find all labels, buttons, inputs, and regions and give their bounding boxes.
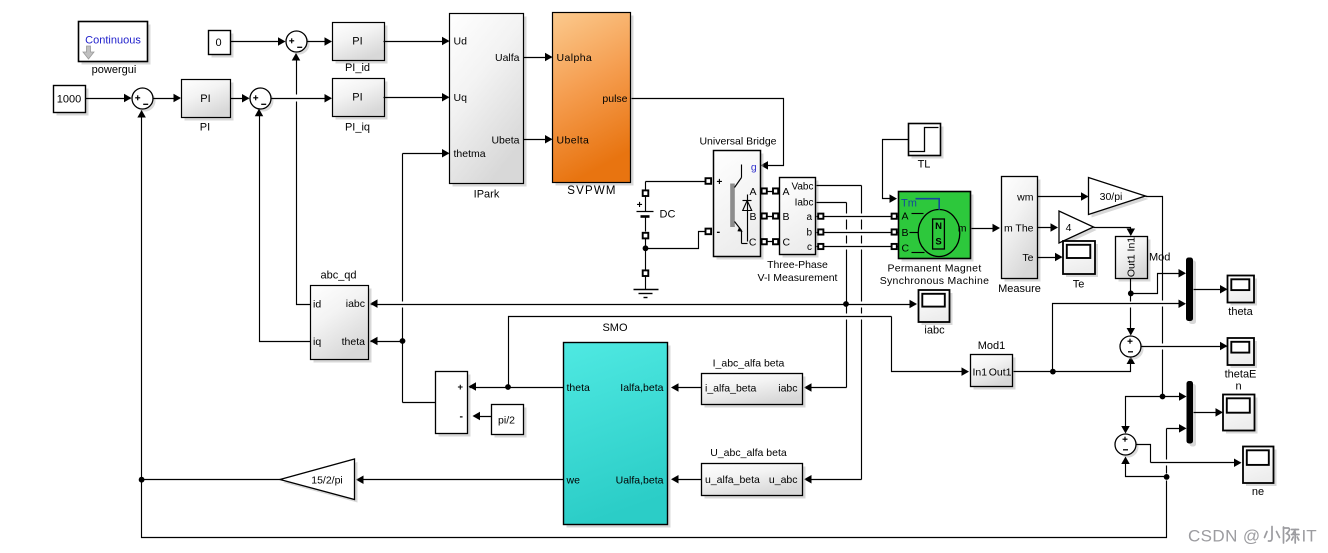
node Mod1 output junction: [1050, 369, 1056, 375]
svg-text:Measure: Measure: [998, 283, 1041, 295]
wire theta up to Mod1 route: [509, 317, 892, 388]
constant 0: [209, 31, 234, 58]
wire Mod1 junction to sum thetaE minus: [1053, 357, 1136, 372]
wire TL to machine Tm: [883, 140, 909, 203]
universal bridge block: [699, 136, 776, 260]
wire measurement c to machine: [817, 246, 899, 248]
wire SMO theta output: [509, 387, 564, 389]
svg-text:thetma: thetma: [454, 148, 486, 160]
svg-text:C: C: [902, 243, 910, 255]
three-phase V-I measurement block: [758, 178, 838, 285]
svg-text:Out1 In1: Out1 In1: [1125, 237, 1137, 277]
wire SVPWM pulse to bridge g: [632, 99, 784, 170]
node Mod output junction: [1128, 291, 1134, 297]
svg-text:PI: PI: [352, 36, 362, 48]
port square measurement B left: [773, 213, 778, 218]
wire 1000 to sum1: [86, 94, 132, 103]
gain 4: [1059, 211, 1097, 246]
PI_iq controller block: [333, 79, 388, 134]
SMO block: [564, 322, 671, 528]
svg-text:B: B: [902, 227, 909, 239]
svg-text:u_abc: u_abc: [769, 474, 798, 486]
svg-text:Ualpha: Ualpha: [557, 52, 593, 64]
svg-text:Mod: Mod: [1149, 252, 1170, 264]
sum junction iq (sum2): [250, 88, 274, 112]
port square measurement C left: [773, 239, 778, 244]
svg-text:Mod1: Mod1: [978, 340, 1006, 352]
svg-text:N: N: [935, 221, 942, 232]
svg-text:n: n: [1235, 381, 1241, 393]
svg-text:The: The: [1015, 223, 1033, 235]
svg-text:SVPWM: SVPWM: [567, 185, 616, 197]
wire DC minus to bridge minus: [646, 232, 706, 249]
wire sum thetaE to thetaE scope: [1142, 342, 1228, 351]
svg-text:+: +: [457, 382, 463, 393]
wire sum2 to PI_iq: [271, 94, 333, 103]
port square bridge minus: [706, 229, 712, 235]
port square measurement b right: [818, 229, 823, 234]
wire sum ne to ne scope: [1137, 445, 1242, 468]
wire DC to ground: [645, 249, 647, 290]
svg-text:C: C: [749, 237, 757, 249]
svg-text:we: we: [566, 475, 581, 487]
add block theta plus pi/2: [436, 372, 471, 437]
svg-text:PI_id: PI_id: [345, 62, 370, 74]
svg-text:Ualfa,beta: Ualfa,beta: [616, 475, 664, 487]
port square measurement A left: [773, 188, 778, 193]
port square ground: [643, 270, 649, 276]
svg-text:DC: DC: [660, 209, 676, 221]
wire sum3 to PI_id: [307, 37, 333, 46]
svg-text:Ualfa: Ualfa: [495, 52, 520, 64]
svg-text:theta: theta: [567, 382, 591, 394]
svg-text:-: -: [460, 411, 464, 423]
svg-text:Tm: Tm: [901, 198, 917, 210]
svg-text:SMO: SMO: [602, 322, 628, 334]
theta scope: [1228, 276, 1258, 319]
svg-text:PI: PI: [200, 122, 210, 134]
svg-text:thetaE: thetaE: [1225, 369, 1257, 381]
svg-text:0: 0: [215, 37, 221, 49]
port square machine c: [892, 244, 897, 249]
PI_id controller block: [333, 23, 388, 75]
node speed feedback junction: [139, 477, 145, 483]
port square DC plus: [643, 190, 649, 196]
svg-text:Te: Te: [1073, 279, 1085, 291]
port square machine a: [892, 214, 897, 219]
svg-text:u_alfa_beta: u_alfa_beta: [705, 474, 760, 486]
wire PI_iq to IPark Uq: [384, 93, 450, 102]
svg-text:iabc: iabc: [924, 325, 945, 337]
ground symbol: [634, 290, 659, 298]
svg-text:B: B: [749, 211, 756, 223]
svg-text:iabc: iabc: [346, 298, 365, 310]
wire measurement b to machine: [817, 232, 899, 234]
svg-text:Ud: Ud: [454, 36, 468, 48]
iabc scope: [919, 290, 953, 337]
svg-text:theta: theta: [342, 336, 366, 348]
wire PI to sum2: [231, 94, 250, 103]
wire Mod junction to sum thetaE plus: [1127, 294, 1136, 336]
svg-text:A: A: [749, 186, 756, 198]
mux n signals: [1187, 381, 1197, 447]
port square machine b: [892, 229, 897, 234]
n scope: [1223, 381, 1258, 434]
svg-text:+: +: [637, 200, 643, 211]
svg-text:abc_qd: abc_qd: [320, 270, 356, 282]
SVPWM block: [553, 13, 634, 198]
port square DC minus: [643, 233, 649, 239]
wire id feedback to sum3: [292, 53, 311, 305]
svg-text:Vabc: Vabc: [791, 181, 813, 192]
svg-text:Ubelta: Ubelta: [557, 134, 590, 146]
svg-text:C: C: [783, 237, 791, 249]
wire IPark Ualfa to SVPWM Ualpha: [524, 53, 553, 62]
DC voltage source: [637, 200, 676, 221]
I_abc_alfa beta converter block: [702, 358, 806, 408]
svg-text:Three-Phase: Three-Phase: [767, 259, 828, 271]
powergui block: [79, 22, 151, 77]
svg-text:pulse: pulse: [602, 93, 627, 105]
svg-text:id: id: [313, 299, 321, 311]
wire theta vertical trunk: [402, 154, 404, 403]
wire Mod junction to theta mux input1: [1131, 269, 1187, 293]
wire measurement a to machine: [817, 216, 899, 218]
wire pi/2 to add block: [473, 412, 492, 421]
wire mux to theta scope: [1194, 285, 1228, 294]
pi/2 constant: [492, 405, 527, 438]
wire bridge C to measurement C: [761, 241, 781, 243]
wire Iabc down: [817, 203, 847, 305]
port square measurement a right: [818, 214, 823, 219]
svg-text:B: B: [783, 211, 790, 223]
svg-text:CSDN @: CSDN @: [1188, 527, 1261, 546]
svg-text:4: 4: [1066, 222, 1072, 234]
wire iq feedback to sum2: [255, 109, 311, 342]
node DC minus junction: [643, 245, 649, 251]
svg-text:1000: 1000: [57, 93, 81, 105]
svg-text:PI: PI: [352, 92, 362, 104]
wire Mod1 output: [1014, 371, 1053, 373]
sum junction thetaE: [1120, 336, 1144, 360]
svg-text:m: m: [1004, 223, 1013, 235]
svg-text:U_abc_alfa beta: U_abc_alfa beta: [710, 447, 787, 459]
wire theta to add block plus: [469, 382, 509, 391]
svg-text:Ialfa,beta: Ialfa,beta: [620, 382, 663, 394]
wire estimated speed to sum ne minus: [1121, 457, 1166, 477]
thetaE scope: [1225, 338, 1257, 381]
svg-text:Permanent Magnet: Permanent Magnet: [887, 263, 981, 275]
wire theta to Mod1: [892, 317, 970, 376]
wire Vabc to u_abc: [804, 186, 862, 484]
wire DC minus terminal: [645, 217, 647, 249]
wire gain 4 to Mod subsystem: [1094, 228, 1136, 237]
wire measure wm to gain 30/pi: [1038, 192, 1089, 201]
TL step source block: [909, 124, 944, 171]
svg-text:-: -: [717, 226, 721, 238]
svg-text:I_abc_alfa beta: I_abc_alfa beta: [713, 358, 785, 370]
svg-text:In1: In1: [973, 367, 988, 379]
U_abc_alfa beta converter block: [702, 447, 806, 499]
svg-text:Universal Bridge: Universal Bridge: [699, 136, 776, 148]
wire 0 to sum3: [231, 37, 286, 46]
CSDN watermark: [1188, 527, 1317, 546]
sum junction speed (sum1): [132, 88, 156, 112]
ne scope: [1243, 447, 1277, 499]
svg-text:g: g: [751, 162, 757, 174]
svg-text:S: S: [935, 237, 941, 248]
wire measure The to gain 4: [1038, 223, 1059, 232]
svg-text:PI: PI: [200, 93, 210, 105]
Mod subsystem block Out1 In1: [1116, 237, 1171, 282]
wire bridge B to measurement B: [761, 216, 781, 218]
Te scope: [1063, 241, 1098, 291]
svg-text:wm: wm: [1016, 192, 1034, 204]
node estimated speed junction: [1164, 474, 1170, 480]
wire gain 15/2/pi output: [142, 479, 281, 481]
svg-text:IPark: IPark: [474, 189, 500, 201]
mux theta signals: [1186, 258, 1196, 325]
svg-text:Continuous: Continuous: [85, 35, 141, 47]
gain 30/pi: [1089, 178, 1149, 218]
wire SMO we to gain 15/2/pi: [356, 475, 564, 484]
svg-text:Synchronous Machine: Synchronous Machine: [880, 275, 990, 287]
wire measure Te to Te scope: [1038, 253, 1063, 262]
svg-text:iq: iq: [313, 336, 321, 348]
wire theta to abc_qd theta: [370, 337, 403, 346]
measure bus selector block: [998, 177, 1041, 296]
svg-text:pi/2: pi/2: [498, 415, 515, 427]
svg-text:Ubeta: Ubeta: [491, 134, 519, 146]
svg-text:+: +: [717, 177, 723, 188]
wire speed feedback bottom loop: [142, 424, 1187, 537]
wire Mod1 junction up to theta mux input2: [1053, 300, 1187, 372]
wire machine m to measure: [972, 224, 1001, 233]
wire bridge A to measurement A: [761, 191, 781, 193]
wire add block output to theta trunk: [403, 402, 436, 404]
Mod1 subsystem block In1 Out1: [971, 340, 1016, 390]
svg-text:Iabc: Iabc: [795, 198, 814, 209]
svg-text:iabc: iabc: [778, 383, 797, 395]
wire IPark Ubeta to SVPWM Ubelta: [524, 135, 553, 144]
node Iabc junction: [843, 301, 849, 307]
wire gain 30/pi down to speed node: [1146, 197, 1163, 397]
wire PI_id to IPark Ud: [384, 37, 450, 46]
port square bridge B: [762, 213, 767, 218]
wire Mod output down: [1130, 279, 1132, 294]
svg-text:Te: Te: [1022, 252, 1033, 264]
constant 1000: [54, 86, 89, 116]
svg-text:30/pi: 30/pi: [1100, 191, 1123, 203]
wire Iabc to iabc scope: [847, 300, 918, 309]
IPark block: [450, 14, 527, 201]
svg-text:theta: theta: [1228, 306, 1253, 318]
node theta junction abc_qd: [400, 338, 406, 344]
wire theta to IPark thetma: [403, 149, 450, 158]
node theta smo junction: [505, 384, 511, 390]
svg-text:i_alfa_beta: i_alfa_beta: [705, 383, 757, 395]
svg-text:ne: ne: [1252, 486, 1264, 498]
sum junction id (sum3): [286, 31, 310, 55]
node speed junction: [1160, 394, 1166, 400]
gain 15/2/pi: [280, 459, 358, 503]
svg-text:V-I Measurement: V-I Measurement: [758, 272, 838, 284]
wire i_alfa_beta to SMO: [671, 383, 702, 392]
abc_qd block: [311, 270, 372, 363]
svg-text:15/2/pi: 15/2/pi: [311, 475, 343, 487]
svg-text:b: b: [806, 228, 812, 239]
wire mux to n scope: [1194, 408, 1224, 417]
svg-text:PI_iq: PI_iq: [345, 122, 370, 134]
wire DC plus terminal: [646, 182, 709, 212]
svg-text:A: A: [902, 211, 909, 223]
port square bridge A: [762, 188, 767, 193]
svg-text:TL: TL: [918, 159, 931, 171]
svg-text:IT: IT: [1302, 527, 1317, 546]
wire speed node to sum ne plus: [1121, 397, 1162, 434]
wire speed node to n mux input1: [1163, 392, 1187, 401]
wire u_alfa_beta to SMO: [671, 475, 702, 484]
svg-text:A: A: [783, 186, 790, 198]
PI speed controller block: [182, 80, 234, 134]
svg-text:c: c: [807, 242, 812, 253]
permanent magnet synchronous machine block: [880, 192, 990, 288]
svg-text:powergui: powergui: [92, 64, 137, 76]
port square bridge plus: [706, 178, 712, 184]
port square measurement c right: [818, 244, 823, 249]
port square bridge C: [762, 239, 767, 244]
wire Iabc to i_abc converter: [804, 305, 847, 392]
wire sum1 to PI: [153, 94, 182, 103]
wire Iabc to abc_qd iabc: [370, 299, 847, 308]
svg-text:a: a: [806, 212, 812, 223]
svg-text:Uq: Uq: [454, 92, 468, 104]
svg-text:Out1: Out1: [989, 367, 1012, 379]
wire speed feedback up to sum1: [137, 110, 146, 480]
sum junction ne: [1115, 434, 1139, 458]
